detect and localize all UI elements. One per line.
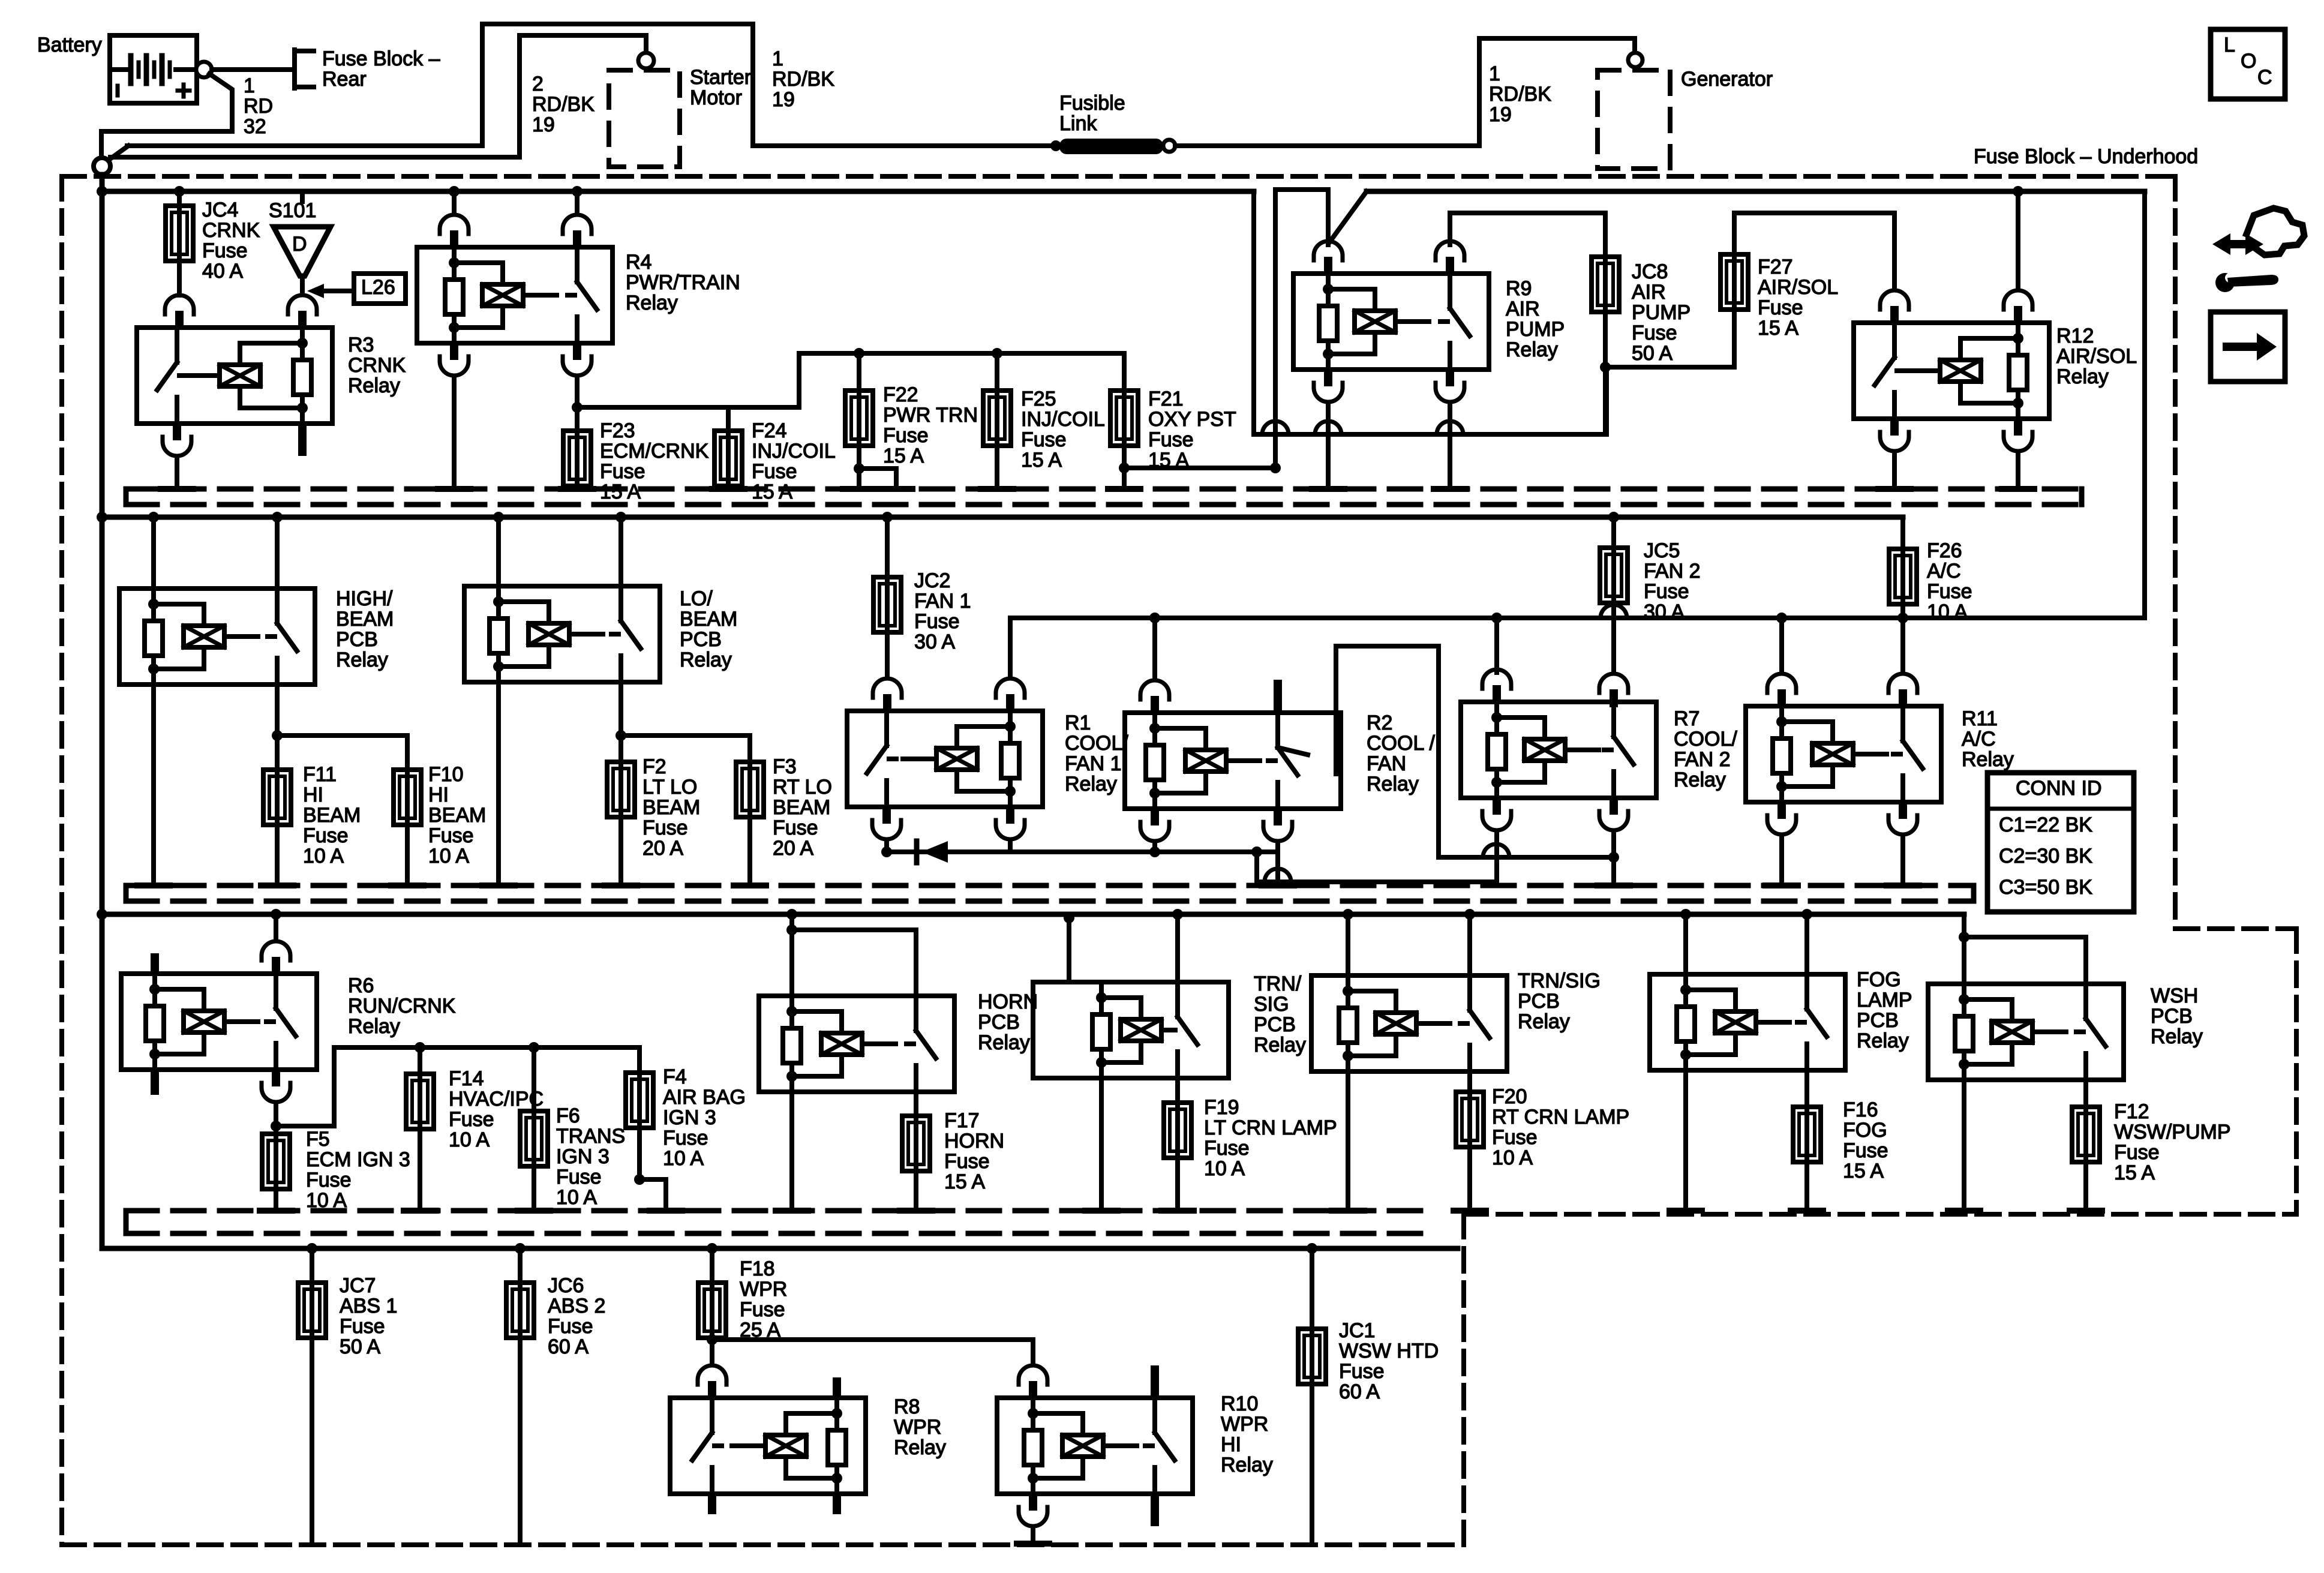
junction JC6 top — [515, 1243, 526, 1254]
terminal F22a — [843, 486, 875, 492]
junction R12 right top — [2013, 186, 2023, 197]
terminal WSH res — [1948, 1208, 1980, 1214]
connector R7 res out — [1482, 797, 1511, 830]
fuse F4 AIR BAG IGN3 10A — [626, 1073, 653, 1128]
svg-text:F17HORNFuse15 A: F17HORNFuse15 A — [944, 1109, 1004, 1193]
relay LO/BEAM PCB — [464, 586, 660, 682]
connector R4 right out — [563, 342, 591, 376]
svg-text:F16FOGFuse15 A: F16FOGFuse15 A — [1843, 1098, 1888, 1182]
connector R4 right pin — [563, 215, 591, 248]
wire bus4 to F18 — [710, 1248, 714, 1283]
terminal F23 — [561, 486, 593, 492]
terminal R2 switch — [1262, 882, 1294, 888]
battery B1 — [110, 35, 197, 103]
junction JC2 top — [882, 512, 893, 523]
junction HORN res top — [786, 909, 797, 920]
wire bus4 to JC1 — [1310, 1248, 1314, 1329]
relay R9 AIR PUMP — [1293, 274, 1489, 370]
wire WSH switch to F12 — [2083, 1080, 2088, 1107]
svg-text:R10WPRHIRelay: R10WPRHIRelay — [1221, 1392, 1273, 1476]
junction JC5 top — [1608, 512, 1619, 523]
terminal R4 at separator — [438, 486, 470, 492]
pin R10 switch bottom stub — [1151, 1493, 1159, 1526]
junction bus2 left — [97, 512, 107, 523]
relay R7 COOL/FAN2 — [1461, 702, 1656, 798]
fuse F14 HVAC/IPC 10A — [406, 1074, 434, 1129]
svg-text:D: D — [292, 233, 307, 256]
junction fan to R2 res — [1149, 613, 1160, 623]
hop contact line over R7 res wire — [1483, 844, 1509, 857]
connector S101 to R3 — [288, 295, 317, 329]
starter motor box — [609, 70, 680, 167]
svg-text:TRN/SIGPCBRelay: TRN/SIGPCBRelay — [1518, 969, 1601, 1033]
connector line C2 — [1254, 432, 1607, 437]
connector JC2 to R1 switch — [873, 679, 902, 712]
terminal F6 — [518, 1208, 550, 1214]
wire TRN1 switch to F19 — [1175, 1078, 1180, 1103]
svg-text:F25INJ/COILFuse15 A: F25INJ/COILFuse15 A — [1021, 388, 1105, 472]
splice S101 triangle — [274, 227, 331, 276]
diagonal from splice — [109, 146, 128, 160]
pin R8 switch bottom stub — [708, 1493, 716, 1514]
wire battery to fuse block rear — [212, 67, 292, 72]
connector R1 res out — [996, 806, 1025, 839]
connector F18 to R8 switch — [698, 1365, 726, 1399]
junction riser bottom — [1270, 463, 1281, 473]
wire 1 RD/BK 19 generator — [1479, 38, 1635, 146]
wire R4 switch out — [575, 377, 580, 431]
terminal F14 — [404, 1208, 436, 1214]
terminal F10 — [391, 882, 424, 888]
connector R1 switch out — [872, 806, 901, 839]
svg-text:R11A/CRelay: R11A/CRelay — [1962, 707, 2014, 771]
svg-text:F11HIBEAMFuse10 A: F11HIBEAMFuse10 A — [303, 763, 361, 867]
junction F2/F3 — [615, 730, 626, 741]
wire JC5 down — [1611, 603, 1616, 673]
junction TRN1 sw top — [1172, 909, 1183, 920]
hop connector line over R9 left out — [1315, 421, 1341, 434]
junction R2 res out on line A — [1149, 846, 1160, 857]
connector R6 switch pin — [262, 941, 290, 975]
svg-text:LO/BEAMPCBRelay: LO/BEAMPCBRelay — [680, 587, 737, 671]
wire HORN res out — [789, 1092, 794, 1211]
fuse JC5 FAN2 30A — [1600, 548, 1628, 603]
junction FOG res top — [1680, 909, 1691, 920]
fuse F21 OXY PST 15A — [1110, 391, 1138, 446]
connector R10 res out — [1019, 1493, 1047, 1526]
relay R3 CRNK — [137, 328, 332, 424]
connector R11 switch out — [1888, 801, 1917, 834]
junction bus1 left — [97, 186, 107, 197]
junction F4 out — [634, 1174, 645, 1185]
terminal F4 — [650, 1208, 682, 1214]
svg-text:R12AIR/SOLRelay: R12AIR/SOLRelay — [2056, 325, 2137, 388]
svg-text:F22PWR TRNFuse15 A: F22PWR TRNFuse15 A — [883, 383, 978, 467]
wire TRN2 res out — [1346, 1071, 1350, 1211]
wire R9 left to bus — [1326, 403, 1331, 489]
connector to R10 res pin — [1019, 1365, 1047, 1399]
wire R10 res down — [1031, 1527, 1035, 1544]
terminal LO/BEAM res — [482, 882, 515, 888]
bus 2 — [102, 515, 1903, 520]
wire bus3 to TRN2 switch — [1467, 914, 1472, 975]
wire LO/BEAM switch out — [618, 682, 623, 762]
connector R2 switch out — [1263, 807, 1292, 841]
junction FOG sw top — [1801, 909, 1812, 920]
wire F26 to fan line and R11 — [1900, 604, 1905, 673]
separator dashed row 1b — [126, 502, 2082, 508]
junction TRN2 sw top — [1464, 909, 1475, 920]
separator dashed row 2a — [126, 883, 1974, 888]
line B inter-relay — [1257, 879, 1496, 884]
connector R3 switch out — [163, 422, 191, 456]
wire fan to R2 res — [1152, 618, 1157, 679]
svg-text:F18WPRFuse25 A: F18WPRFuse25 A — [740, 1257, 787, 1341]
pin R8 res bottom stub — [833, 1493, 841, 1514]
svg-text:CONN ID: CONN ID — [2016, 777, 2102, 800]
wire fan to R11 res — [1779, 618, 1784, 673]
svg-text:F20RT CRN LAMPFuse10 A: F20RT CRN LAMPFuse10 A — [1492, 1085, 1629, 1169]
fuse F22 PWR TRN 15A — [845, 391, 873, 446]
fuse JC8 AIR PUMP 50A — [1592, 257, 1619, 312]
wire R7 res to line B — [1494, 831, 1499, 882]
wire LO/BEAM res out — [496, 682, 501, 885]
fuse F3 RT LO BEAM 20A — [736, 762, 764, 817]
connector to R11 switch — [1888, 674, 1917, 707]
terminal F21 — [1108, 486, 1140, 492]
fuse F11 HI BEAM 10A — [263, 770, 291, 825]
wire bus3 to FOG switch — [1804, 914, 1809, 974]
svg-text:HORNPCBRelay: HORNPCBRelay — [978, 990, 1038, 1054]
connector R6 switch out — [262, 1068, 290, 1102]
junction HIGH/BEAM res top — [148, 512, 159, 523]
svg-text:O: O — [2241, 50, 2256, 73]
wire F21 riser up-jog to R9 left pin — [1275, 190, 1328, 468]
fuse F16 FOG 15A — [1793, 1107, 1821, 1162]
junction F26 fan line — [1897, 613, 1908, 623]
wire F4 jog — [639, 1179, 666, 1211]
fuse F25 INJ/COIL 15A — [983, 391, 1011, 446]
hop line B over R2 switch wire — [1265, 869, 1291, 882]
connector R12 right pin — [2004, 290, 2032, 324]
separator 3 left bracket — [124, 1211, 129, 1233]
svg-text:JC5FAN 2Fuse30 A: JC5FAN 2Fuse30 A — [1644, 539, 1700, 623]
generator box — [1598, 70, 1670, 169]
connector R12 switch out — [1880, 418, 1909, 451]
junction JC4 top — [174, 186, 185, 197]
svg-text:F5ECM IGN 3Fuse10 A: F5ECM IGN 3Fuse10 A — [306, 1128, 410, 1212]
terminal F16 — [1791, 1208, 1823, 1214]
wire 1 RD 32 battery feed — [101, 74, 232, 157]
fuse F23 ECM/CRNK 15A — [563, 431, 591, 486]
bus 1 — [102, 189, 1254, 194]
pin R6 res top stub — [151, 953, 159, 975]
terminal F2 — [605, 882, 637, 888]
hop connector line over R9 switch out — [1437, 421, 1463, 434]
wire R3 to bus — [175, 457, 179, 489]
wire bus4 to JC6 — [518, 1248, 523, 1283]
diode D1 on line A — [917, 841, 948, 863]
wire to F24 — [726, 407, 731, 431]
svg-text:L26: L26 — [361, 276, 395, 299]
connector R4 left out — [440, 342, 469, 376]
wire bus3 to TRN2 res — [1346, 914, 1350, 975]
wire JC6 down — [518, 1338, 523, 1544]
wire bus4 to JC7 — [310, 1248, 314, 1283]
wire F18 out — [710, 1338, 714, 1364]
arrow L26 to S101 — [307, 284, 354, 298]
junction F22 bottom — [854, 463, 864, 474]
fuse F12 WSW/PUMP 15A — [2072, 1107, 2100, 1162]
wire JC2 to R1 — [885, 632, 890, 677]
R2 blade contact — [1278, 748, 1308, 755]
arrow box icon — [2211, 312, 2285, 382]
separator 1 left bracket — [124, 489, 129, 505]
junction HIGH/BEAM sw top — [272, 512, 283, 523]
junction fan to R11 res — [1776, 613, 1787, 623]
junction JC7 top — [307, 1243, 317, 1254]
terminal FOG res — [1670, 1208, 1702, 1214]
wire to F14 — [418, 1047, 422, 1074]
fan feed line — [1010, 616, 2145, 620]
pin R2 switch top stub — [1274, 680, 1282, 714]
relay WSH PCB — [1928, 984, 2124, 1080]
junction TRN1 res top — [1064, 912, 1074, 923]
svg-text:1RD/BK19: 1RD/BK19 — [772, 47, 834, 111]
pin R3 coil stub — [298, 422, 307, 456]
bus 3 — [102, 912, 1964, 917]
wire TRN1 res out — [1099, 1078, 1104, 1211]
svg-text:R1COOL/FAN 1Relay: R1COOL/FAN 1Relay — [1065, 712, 1128, 795]
wire JC8 bottom — [1603, 312, 1608, 434]
connector R2 res out — [1140, 807, 1169, 841]
terminal F19 — [1161, 1208, 1194, 1214]
starter motor terminal circle — [638, 53, 654, 68]
wire bus3 to TRN1 res — [1067, 918, 1071, 982]
terminal R9 switch — [1434, 486, 1466, 492]
svg-text:F2LT LOBEAMFuse20 A: F2LT LOBEAMFuse20 A — [642, 755, 700, 860]
connector R7 switch out — [1599, 797, 1628, 830]
wire bus2 to HIGH/BEAM res — [151, 517, 156, 589]
wire F22 branch — [859, 469, 896, 489]
terminal HIGH/BEAM res — [137, 882, 170, 888]
junction F18 out — [707, 1334, 717, 1345]
junction JC8/F27 — [1600, 362, 1611, 373]
wire JC7 down — [310, 1338, 314, 1544]
connector JC5 to R7 switch — [1599, 674, 1628, 707]
wire bus2 to JC2 — [885, 517, 890, 577]
connector R12 right out — [2004, 418, 2032, 451]
svg-text:F19LT CRN LAMPFuse10 A: F19LT CRN LAMPFuse10 A — [1204, 1096, 1337, 1180]
svg-text:FOGLAMPPCBRelay: FOGLAMPPCBRelay — [1857, 968, 1912, 1052]
fuse F18 WPR 25A — [698, 1283, 726, 1338]
wire fusible link to generator — [1175, 143, 1479, 148]
separator 2 left bracket — [124, 885, 129, 901]
wire F21 to riser — [1124, 466, 1275, 470]
fuse F19 LT CRN LAMP 10A — [1164, 1103, 1191, 1158]
fusible link — [1059, 139, 1163, 154]
wire R2 switch down — [1275, 842, 1280, 885]
fuse F2 LT LO BEAM 20A — [607, 762, 635, 817]
junction contact to R7 switch out — [1608, 852, 1619, 863]
wire HORN gamma to switch — [792, 930, 916, 996]
terminal F3 — [734, 882, 766, 888]
terminal R11 res — [1765, 882, 1798, 888]
wire splice to starter motor (inner) — [110, 155, 520, 160]
junction F21 bottom — [1119, 463, 1130, 473]
pin R10 switch top stub — [1151, 1365, 1159, 1399]
wire to F24 and F22 riser — [577, 405, 799, 410]
terminal R3 at separator — [161, 486, 193, 492]
junction F14 top — [415, 1042, 425, 1053]
relay HORN PCB — [759, 996, 954, 1092]
svg-text:R8WPRRelay: R8WPRRelay — [894, 1395, 946, 1459]
relay HIGH/BEAM PCB — [119, 589, 315, 685]
wire F22 out — [857, 446, 861, 489]
svg-text:Fuse Block – Underhood: Fuse Block – Underhood — [1974, 145, 2198, 168]
ignition 3 feed line — [334, 1045, 639, 1050]
wire WSH gamma to switch — [1964, 937, 2086, 984]
terminal R12 right — [2002, 486, 2034, 492]
svg-text:R3CRNKRelay: R3CRNKRelay — [348, 334, 406, 397]
relay TRN/SIG PCB 1 — [1033, 982, 1229, 1078]
junction line A to line B link — [1251, 846, 1262, 857]
junction JC1 top — [1307, 1243, 1317, 1254]
terminal F5 — [260, 1208, 292, 1214]
svg-text:JC8AIRPUMPFuse50 A: JC8AIRPUMPFuse50 A — [1632, 260, 1691, 365]
fusible link left terminal — [1050, 140, 1061, 151]
junction TRN2 res top — [1343, 909, 1353, 920]
terminal F11 — [261, 882, 293, 888]
battery positive terminal circle — [196, 62, 212, 77]
generator terminal circle — [1628, 53, 1643, 67]
connector R9 left out — [1314, 368, 1343, 402]
svg-text:C3=50 BK: C3=50 BK — [1999, 876, 2092, 899]
relay R12 AIR/SOL — [1854, 323, 2049, 419]
wire to F3 — [621, 736, 750, 762]
terminal R12 switch — [1878, 486, 1911, 492]
junction LO/BEAM sw top — [615, 512, 626, 523]
junction R6 out — [271, 1121, 281, 1131]
svg-text:WSHPCBRelay: WSHPCBRelay — [2151, 984, 2203, 1048]
wire R9 switch to bus — [1448, 403, 1452, 489]
LOC reference box — [2211, 29, 2285, 99]
svg-text:F10HIBEAMFuse10 A: F10HIBEAMFuse10 A — [428, 763, 486, 867]
wire bus2 to JC5 — [1611, 517, 1616, 548]
terminal R9 left — [1312, 486, 1344, 492]
wire to F22 — [857, 353, 861, 391]
junction R1 out on line A — [881, 846, 892, 857]
separator 2 right bracket — [1971, 885, 1977, 901]
wire JC1 down — [1310, 1384, 1314, 1544]
relay R8 WPR — [670, 1398, 866, 1494]
svg-text:R6RUN/CRNKRelay: R6RUN/CRNKRelay — [348, 974, 456, 1038]
terminal F24 — [712, 486, 744, 492]
bus 4 — [102, 1246, 1458, 1251]
fuse JC7 ABS1 50A — [298, 1283, 326, 1338]
svg-text:F12WSW/PUMPFuse15 A: F12WSW/PUMPFuse15 A — [2114, 1100, 2231, 1184]
wire bus1 to R4 right — [575, 191, 580, 214]
node S200 splice circle — [94, 158, 110, 175]
fuse F10 HI BEAM 10A — [394, 770, 421, 825]
connector R11 res out — [1767, 801, 1796, 834]
svg-text:Battery: Battery — [37, 34, 102, 56]
fuse F6 TRANS IGN3 10A — [520, 1111, 548, 1166]
wire JC4 to R3 — [177, 261, 182, 295]
svg-text:F6TRANSIGN 3Fuse10 A: F6TRANSIGN 3Fuse10 A — [556, 1104, 625, 1209]
junction F11/F10 — [272, 730, 283, 741]
wire bus1 to R4 left — [452, 191, 457, 214]
connector R9 switch pin — [1436, 241, 1464, 275]
relay TRN/SIG PCB 2 — [1311, 975, 1507, 1071]
terminal F25 — [981, 486, 1013, 492]
wire F21 out — [1122, 446, 1127, 489]
wire to F10 — [277, 736, 407, 770]
wire bus2 to LO/BEAM switch — [618, 517, 623, 586]
junction WSH gamma — [1959, 932, 1969, 942]
wire feed line corner to F4 — [637, 1047, 642, 1073]
wire HIGH/BEAM switch out — [275, 685, 280, 770]
wire F23 to bus — [575, 486, 580, 489]
wire connector line up to JC8 bottom — [1604, 367, 1609, 434]
wire left feed vertical — [100, 175, 105, 1248]
terminal F17 — [900, 1208, 932, 1214]
svg-text:L: L — [2224, 34, 2235, 56]
wire fan to R7 res — [1494, 618, 1499, 673]
svg-text:C1=22 BK: C1=22 BK — [1999, 813, 2092, 836]
CONN ID table — [1987, 773, 2134, 912]
fuse JC2 FAN1 30A — [873, 577, 901, 632]
svg-text:R2COOL /FANRelay: R2COOL /FANRelay — [1367, 712, 1436, 795]
svg-text:JC7ABS 1Fuse50 A: JC7ABS 1Fuse50 A — [340, 1274, 397, 1358]
relay R2 COOL/FAN — [1125, 713, 1341, 809]
connector R9 left pin — [1314, 241, 1343, 275]
svg-text:S101: S101 — [269, 199, 316, 222]
svg-text:TRN/SIGPCBRelay: TRN/SIGPCBRelay — [1254, 972, 1306, 1056]
separator dashed row 1a — [126, 487, 2082, 492]
connector R2 res pin — [1140, 680, 1169, 714]
wire F27 top to R12 left pin — [1734, 213, 1894, 289]
wire bus1 to JC4 — [177, 191, 182, 206]
wire HORN switch to F17 — [914, 1092, 918, 1116]
terminal F20 — [1454, 1208, 1486, 1214]
wire to F21 — [1122, 353, 1127, 391]
wire R2 res to line A — [1152, 842, 1157, 852]
relay R10 WPR HI — [997, 1398, 1193, 1494]
svg-text:F26A/CFuse10 A: F26A/CFuse10 A — [1927, 539, 1972, 623]
svg-text:C: C — [2257, 66, 2272, 89]
wire F18 to R10 — [712, 1340, 1033, 1364]
wire fan line to R1 res — [1008, 618, 1013, 677]
terminal R10 — [1017, 1541, 1049, 1547]
svg-text:JC2FAN 1Fuse30 A: JC2FAN 1Fuse30 A — [914, 569, 971, 653]
wire bus3 to R6 switch — [274, 914, 278, 940]
wire R6 out — [274, 1103, 278, 1134]
separator dashed row 2b — [126, 899, 1974, 904]
junction HORN gamma — [786, 924, 797, 935]
wire bus2 to LO/BEAM res — [496, 517, 501, 586]
svg-text:HIGH/BEAMPCBRelay: HIGH/BEAMPCBRelay — [336, 587, 394, 671]
separator dashed row 3b — [126, 1231, 1434, 1236]
svg-text:F21OXY PSTFuse15 A: F21OXY PSTFuse15 A — [1148, 388, 1236, 472]
wire HIGH/BEAM res out — [151, 685, 156, 885]
connector R12 switch pin — [1880, 290, 1909, 324]
diagonal bus1 to R9 left pin — [1329, 191, 1367, 242]
wire to F25 — [995, 353, 999, 391]
junction F6 top — [529, 1042, 539, 1053]
svg-text:R9AIRPUMPRelay: R9AIRPUMPRelay — [1506, 277, 1565, 361]
wire link line A to line B — [1254, 852, 1259, 882]
